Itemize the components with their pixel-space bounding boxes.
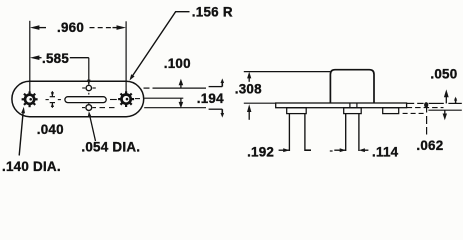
- dimension .585: [30, 51, 91, 85]
- dimension .040 (slot width): [37, 91, 64, 137]
- svg-text:.050: .050: [430, 66, 457, 81]
- pin 1 legs: [288, 114, 290, 151]
- pin 3 boss: [383, 108, 399, 114]
- slot: [65, 97, 106, 103]
- svg-text:.308: .308: [235, 82, 262, 97]
- .050 down arrow below L2: [444, 110, 446, 114]
- svg-text:.156 R: .156 R: [192, 4, 233, 19]
- svg-text:.114: .114: [372, 144, 399, 159]
- cap top extension line (y=71.6): [244, 71, 330, 73]
- dimension .308: [235, 72, 262, 120]
- svg-text:.960: .960: [57, 20, 84, 35]
- boss-bottom dashed extension L3 (y=113.4): [403, 112, 425, 114]
- svg-text:.585: .585: [42, 51, 69, 66]
- right-end extension line L1 (plate top ext, y=104.1): [407, 102, 462, 104]
- centerline dashes around small holes and slot: [46, 88, 141, 108]
- right hole knurled ring: [118, 91, 134, 107]
- svg-text:.140 DIA.: .140 DIA.: [2, 159, 61, 174]
- extension line plate centerline (y=98.2): [144, 97, 183, 99]
- dimension .114 arrows / pin2 feet: [334, 144, 398, 159]
- right-end line L2 (y=110.2): [428, 109, 461, 111]
- .050 corner tick: [455, 98, 457, 103]
- switch cap (rounded body): [330, 70, 374, 103]
- pin 2 legs: [345, 114, 347, 151]
- small hole bottom (.054): [86, 105, 92, 111]
- dimension .192 arrow / pin1 left foot: [247, 144, 290, 159]
- .062 dashed leader: [426, 107, 428, 135]
- dash between pins: [330, 150, 333, 152]
- slider shaft ticks in plate under cap: [349, 103, 351, 107]
- svg-text:.040: .040: [37, 122, 64, 137]
- svg-text:.192: .192: [247, 144, 274, 159]
- leader + label .054 DIA.: [81, 111, 140, 154]
- extension line left (x=29.8): [29, 21, 31, 92]
- plate side view: [276, 103, 407, 108]
- dimension .194: [197, 78, 224, 117]
- extension line right (x=126.1): [125, 21, 127, 91]
- pin 2 boss: [344, 108, 362, 114]
- small hole top (.054): [86, 85, 91, 90]
- left hole knurled ring: [22, 91, 38, 107]
- leader + label .140 DIA.: [2, 107, 61, 174]
- plate-top extension to left (.308 bottom ref): [244, 102, 276, 104]
- svg-text:.054 DIA.: .054 DIA.: [81, 140, 140, 155]
- extension line bottom small hole center (y=107.7): [144, 107, 206, 109]
- dimension .960: [30, 20, 126, 35]
- extension line top small hole center (y=88.1): [144, 87, 207, 89]
- .050 up arrow: [444, 89, 449, 97]
- leader + label .156 R: [130, 4, 233, 80]
- pin 1 boss: [287, 108, 307, 114]
- svg-text:.194: .194: [197, 91, 224, 106]
- svg-text:.062: .062: [416, 138, 443, 153]
- pin1 right foot: [305, 149, 311, 151]
- dimension .100: [164, 56, 191, 108]
- svg-text:.100: .100: [164, 56, 191, 71]
- junction blob on L1: [424, 102, 428, 108]
- left view: plate outline (stadium): [12, 81, 144, 116]
